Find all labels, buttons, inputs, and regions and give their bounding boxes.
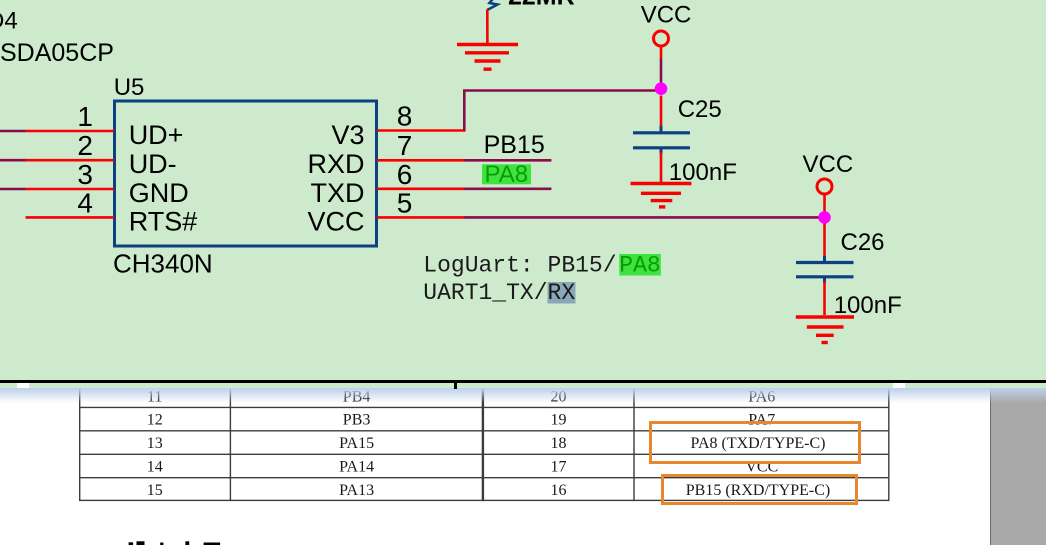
power port VCC (C25): [641, 2, 692, 46]
svg-text:PA8: PA8: [485, 161, 529, 188]
wire VCC to junction (purple): [660, 59, 663, 83]
wire pin6 TXD (red): [377, 188, 466, 191]
wire pin2 (purple segment): [0, 159, 26, 162]
wire VCC to junction (red): [660, 47, 663, 60]
wire junction to C26 (red): [823, 224, 826, 259]
highlight box PB15 row (orange): [661, 474, 858, 505]
highlight box PA8 row (orange): [649, 421, 861, 464]
black tick: [454, 380, 457, 390]
wire pin6 net stub (purple): [464, 188, 551, 191]
svg-text:PB15: PB15: [484, 131, 545, 159]
wire pin3 (purple segment): [0, 188, 26, 191]
svg-text:15: 15: [146, 482, 162, 499]
wire pin3 (red segment): [26, 188, 115, 191]
svg-text:18: 18: [550, 435, 566, 452]
document white area: [0, 383, 1046, 545]
wire C26 to ground (red): [823, 281, 826, 315]
svg-text:ESDA05CP: ESDA05CP: [0, 39, 114, 67]
svg-text:CH340N: CH340N: [113, 249, 213, 279]
wire VCC2 to junction (red): [823, 195, 826, 213]
svg-text:PA8: PA8: [619, 252, 660, 278]
resistor R (partial, value 22MR): [487, 0, 574, 11]
pin map table: [79, 384, 890, 501]
svg-text:1: 1: [77, 101, 93, 132]
wire pin8 riser (purple): [464, 91, 661, 131]
svg-text:UART1_TX/RX: UART1_TX/RX: [423, 280, 575, 306]
svg-text:PA13: PA13: [339, 482, 374, 499]
svg-text:VCC: VCC: [641, 2, 692, 29]
svg-text:UD+: UD+: [129, 120, 184, 150]
wire C25 to ground (red): [660, 152, 663, 182]
svg-text:5: 5: [397, 187, 413, 218]
ground (C25): [631, 184, 692, 207]
svg-text:D4: D4: [0, 8, 18, 35]
pin names right: [307, 120, 364, 237]
schematic green background: [0, 0, 1046, 383]
svg-text:7: 7: [397, 130, 413, 161]
svg-text:2: 2: [77, 130, 93, 161]
svg-text:RXD: RXD: [307, 149, 364, 179]
window bottom border (black): [0, 380, 1046, 384]
svg-text:VCC: VCC: [307, 207, 364, 237]
note UART1_TX/RX: [423, 280, 575, 306]
pin numbers left: [77, 101, 93, 218]
note LogUart: PB15/PA8: [423, 252, 661, 278]
svg-text:PB3: PB3: [342, 412, 370, 429]
clipped heading strokes (bottom): [0, 535, 300, 545]
svg-text:UD-: UD-: [129, 149, 177, 179]
svg-text:PA14: PA14: [339, 458, 374, 475]
svg-text:V3: V3: [331, 120, 364, 150]
svg-text:100nF: 100nF: [834, 292, 902, 319]
wire pin5 to C26 (purple): [464, 216, 824, 219]
wire pin1 (purple segment): [0, 130, 26, 133]
svg-text:8: 8: [397, 101, 413, 132]
svg-text:C25: C25: [678, 96, 722, 123]
net label PA8 (highlighted): [482, 161, 531, 188]
shadow gradient: [0, 388, 1046, 403]
wire pin2 (red segment): [26, 159, 115, 162]
junction node (C26/VCC): [818, 211, 831, 224]
svg-text:C26: C26: [841, 229, 885, 256]
svg-text:VCC: VCC: [803, 151, 854, 178]
svg-text:3: 3: [77, 159, 93, 190]
chip U5 box: [115, 101, 377, 246]
svg-text:22MR: 22MR: [508, 0, 575, 11]
svg-text:12: 12: [146, 412, 162, 429]
svg-text:13: 13: [146, 435, 162, 452]
wire pin8 V3 (red): [377, 129, 466, 132]
svg-text:16: 16: [550, 482, 566, 499]
power port VCC (C26): [803, 151, 854, 194]
svg-text:LogUart: PB15/: LogUart: PB15/: [423, 252, 616, 278]
svg-text:TXD: TXD: [311, 178, 365, 208]
svg-text:PA15: PA15: [339, 435, 374, 452]
wire pin7 net stub (purple): [464, 159, 551, 162]
wire junction to C25 (red): [660, 96, 663, 129]
svg-text:GND: GND: [129, 178, 189, 208]
wire pin7 RXD (red): [377, 159, 466, 162]
grey panel right: [990, 388, 1046, 545]
green strip below border: [0, 383, 1046, 388]
junction node (C25/VCC): [655, 82, 668, 95]
capacitor C25: [633, 126, 690, 154]
svg-text:6: 6: [397, 159, 413, 190]
capacitor C26: [796, 256, 854, 283]
white notch left: [17, 383, 28, 388]
svg-text:19: 19: [550, 412, 566, 429]
ground (C26): [796, 317, 854, 343]
svg-text:17: 17: [550, 458, 566, 475]
wire pin5 VCC (red): [377, 216, 466, 219]
svg-text:U5: U5: [114, 74, 145, 101]
svg-text:4: 4: [77, 187, 93, 218]
wire pin4 RTS# stub (red): [26, 216, 115, 219]
ground (top-left): [457, 45, 518, 70]
wire resistor to ground: [486, 10, 489, 45]
wire pin1 (red segment): [26, 130, 115, 133]
white notch right: [893, 383, 905, 388]
svg-text:14: 14: [146, 458, 162, 475]
pin names left: [129, 120, 198, 237]
svg-text:RTS#: RTS#: [129, 207, 198, 237]
pin numbers right: [397, 101, 413, 219]
